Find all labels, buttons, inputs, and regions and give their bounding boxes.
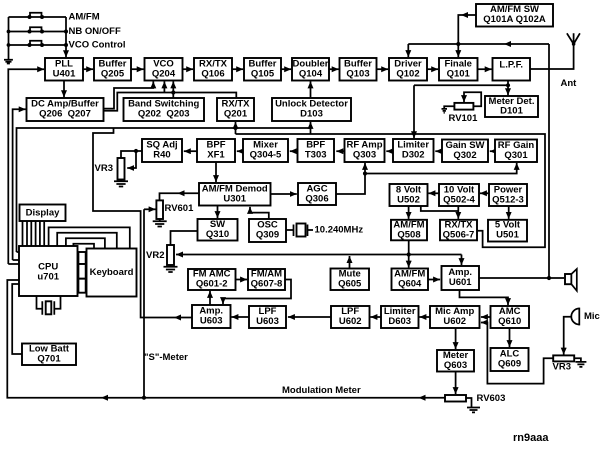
svg-text:"S"-Meter: "S"-Meter [144, 352, 188, 363]
svg-text:Q502-4: Q502-4 [443, 195, 475, 206]
svg-text:Q604: Q604 [398, 279, 422, 290]
svg-text:U602: U602 [339, 316, 362, 327]
svg-text:Q302: Q302 [453, 150, 476, 161]
svg-text:Q508: Q508 [397, 230, 420, 241]
svg-text:Q605: Q605 [338, 279, 362, 290]
svg-text:D101: D101 [500, 106, 523, 117]
svg-text:U502: U502 [397, 195, 420, 206]
svg-text:D103: D103 [300, 109, 323, 120]
svg-text:Q103: Q103 [346, 69, 369, 80]
svg-text:NB ON/OFF: NB ON/OFF [69, 26, 121, 37]
svg-text:Q205: Q205 [101, 69, 125, 80]
svg-text:U601: U601 [449, 277, 472, 288]
svg-text:U501: U501 [496, 230, 519, 241]
svg-text:VR2: VR2 [146, 250, 164, 261]
svg-text:Q601-2: Q601-2 [196, 279, 228, 290]
svg-text:Q204: Q204 [152, 69, 176, 80]
svg-text:Display: Display [26, 208, 61, 219]
svg-text:Q303: Q303 [353, 150, 376, 161]
svg-text:VR3: VR3 [95, 163, 113, 174]
svg-text:Q105: Q105 [251, 69, 275, 80]
svg-text:Ant: Ant [561, 78, 578, 89]
svg-text:Q310: Q310 [206, 229, 229, 240]
svg-text:RV603: RV603 [477, 393, 506, 404]
svg-text:Q202 Q203: Q202 Q203 [138, 109, 190, 120]
svg-text:Q102: Q102 [396, 69, 419, 80]
svg-text:VR3: VR3 [553, 362, 571, 373]
svg-text:Q309: Q309 [256, 230, 279, 241]
svg-text:L.P.F.: L.P.F. [499, 60, 523, 71]
svg-text:RV101: RV101 [449, 113, 479, 124]
svg-text:Q104: Q104 [299, 69, 323, 80]
svg-text:Q609: Q609 [498, 359, 521, 370]
svg-text:D603: D603 [388, 316, 411, 327]
svg-text:u701: u701 [37, 272, 59, 283]
svg-text:Keyboard: Keyboard [90, 267, 134, 278]
svg-text:Mic: Mic [584, 311, 600, 322]
svg-text:rn9aaa: rn9aaa [513, 432, 549, 444]
svg-text:Q701: Q701 [37, 354, 61, 365]
svg-text:Q101: Q101 [447, 69, 471, 80]
svg-text:Q306: Q306 [305, 194, 328, 205]
svg-text:D302: D302 [402, 150, 425, 161]
svg-text:Q512-3: Q512-3 [492, 195, 524, 206]
svg-text:Q301: Q301 [504, 150, 528, 161]
svg-text:U401: U401 [53, 69, 76, 80]
svg-text:Q304-5: Q304-5 [250, 150, 282, 161]
svg-text:Modulation Meter: Modulation Meter [282, 385, 361, 396]
svg-text:U603: U603 [256, 316, 279, 327]
svg-text:VCO Control: VCO Control [69, 40, 126, 51]
svg-text:Q607-8: Q607-8 [251, 279, 283, 290]
svg-text:AM/FM: AM/FM [69, 12, 100, 23]
svg-text:U602: U602 [443, 316, 466, 327]
svg-text:Q506-7: Q506-7 [443, 230, 475, 241]
svg-text:Q610: Q610 [498, 316, 521, 327]
svg-text:Q201: Q201 [224, 109, 248, 120]
svg-text:Q101A Q102A: Q101A Q102A [483, 14, 546, 25]
svg-text:Q106: Q106 [201, 69, 224, 80]
svg-text:Q206 Q207: Q206 Q207 [39, 109, 91, 120]
svg-text:RV601: RV601 [165, 203, 195, 214]
svg-text:T303: T303 [305, 150, 327, 161]
svg-text:Q603: Q603 [444, 360, 467, 371]
svg-text:U301: U301 [223, 194, 246, 205]
svg-text:10.240MHz: 10.240MHz [315, 225, 364, 236]
svg-text:XF1: XF1 [207, 150, 225, 161]
svg-text:U603: U603 [200, 316, 223, 327]
svg-text:R40: R40 [153, 150, 170, 161]
